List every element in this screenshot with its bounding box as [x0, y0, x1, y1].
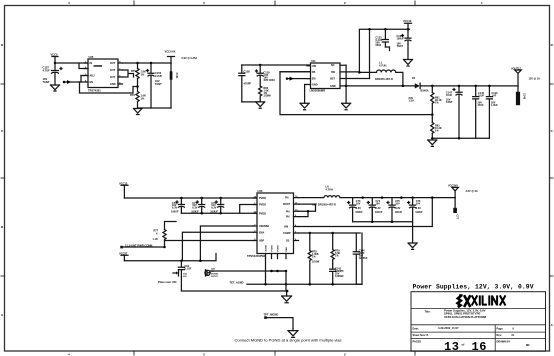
svg-text:100UF: 100UF: [375, 211, 383, 214]
junction: [402, 85, 405, 88]
capacitor C72: [215, 198, 223, 213]
svg-text:TANT: TANT: [43, 80, 50, 84]
zone tick bottom 2: [274, 351, 276, 355]
C137 value labels: [43, 66, 51, 85]
Q1 labels: [183, 274, 188, 279]
junction: [371, 220, 374, 223]
svg-text:VCC12: VCC12: [119, 181, 128, 185]
svg-text:Power Supplies, 12V, 3.0V, 0.9: Power Supplies, 12V, 3.0V, 0.9V: [413, 284, 534, 291]
svg-text:12V @ 1A: 12V @ 1A: [529, 78, 541, 81]
C64 labels: [185, 265, 192, 271]
zone tick right 1: [550, 83, 554, 85]
svg-text:LM22680MR: LM22680MR: [310, 89, 326, 93]
wire output cap ground rail: [353, 207, 413, 243]
junction: [286, 290, 289, 293]
ground: [282, 296, 292, 303]
svg-text:TANT: TANT: [155, 82, 162, 86]
svg-text:SW: SW: [331, 71, 336, 74]
junction: [285, 283, 288, 286]
capacitor C145: [473, 86, 479, 138]
power flag VCC5: [52, 57, 58, 64]
svg-text:PH: PH: [286, 210, 290, 213]
svg-text:OUT: OUT: [110, 76, 116, 79]
capacitor C128: [239, 65, 245, 102]
C134 labels: [397, 35, 405, 48]
wire pin8 to gnd column: [345, 65, 347, 103]
C145 labels: [478, 92, 485, 107]
junction: [407, 28, 410, 31]
svg-text:Connect MGND to PGND at a sing: Connect MGND to PGND at a single point w…: [235, 337, 342, 342]
resistor R76: [136, 87, 139, 109]
svg-text:1/16W: 1/16W: [312, 261, 320, 264]
wire VSENSE stagger: [182, 232, 253, 260]
svg-text:ADJ: ADJ: [90, 75, 96, 78]
junction: [368, 28, 371, 31]
svg-text:0.9V @ 0.25A: 0.9V @ 0.25A: [182, 57, 198, 60]
svg-text:1.1K: 1.1K: [153, 238, 158, 241]
junction: [200, 197, 203, 200]
wire SS row: [165, 240, 254, 242]
svg-text:6.3V: 6.3V: [172, 207, 177, 210]
ground: [300, 103, 309, 109]
capacitor C74: [367, 198, 375, 222]
svg-text:TPS74301: TPS74301: [88, 88, 101, 92]
svg-text:VCCAUX: VCCAUX: [165, 50, 176, 54]
svg-text:6.3V: 6.3V: [376, 207, 381, 210]
svg-text:PVDD: PVDD: [259, 204, 266, 207]
zone tick top 1: [133, 1, 135, 6]
junction: [180, 197, 183, 200]
svg-text:1.5A: 1.5A: [409, 99, 415, 103]
capacitor C144: [353, 233, 362, 284]
svg-text:VIN: VIN: [284, 226, 288, 229]
ferrite/cap C151 dark body: [170, 63, 173, 108]
R76 labels: [130, 93, 146, 101]
C128 labels: [244, 70, 252, 86]
junction: [431, 196, 434, 199]
svg-text:OUT: OUT: [110, 62, 116, 65]
junction: [458, 85, 461, 88]
junction: [345, 85, 348, 88]
svg-text:DR1050-4R7-R: DR1050-4R7-R: [375, 77, 393, 81]
junction: [54, 62, 57, 65]
svg-text:PH: PH: [286, 216, 290, 219]
svg-text:OUT: OUT: [110, 69, 116, 72]
capacitor C64: [178, 261, 184, 277]
svg-text:COMP: COMP: [283, 232, 291, 235]
svg-text:VIN: VIN: [312, 65, 316, 68]
svg-text:PGND: PGND: [277, 245, 279, 252]
svg-text:1206SF: 1206SF: [359, 257, 368, 260]
R75 labels: [131, 69, 146, 77]
wire GND pin drop: [304, 85, 306, 104]
C74 labels: [375, 200, 383, 214]
svg-text:GND: GND: [110, 83, 116, 86]
power flag VCC12 top: [405, 23, 412, 29]
wire feedback loop: [80, 82, 138, 93]
svg-text:1/16W: 1/16W: [264, 95, 272, 98]
wire output sense: [299, 198, 433, 227]
junction: [270, 270, 273, 273]
svg-text:FB: FB: [312, 71, 316, 74]
svg-text:NC: NC: [331, 64, 335, 67]
resistor R75: [136, 63, 139, 87]
ground: [134, 109, 143, 115]
C144 labels: [359, 250, 368, 261]
title cell text: [444, 308, 487, 319]
junction: [488, 85, 491, 88]
svg-text:GND: GND: [312, 84, 318, 87]
U11 pin names: [312, 64, 336, 88]
svg-text:PH: PH: [285, 197, 289, 200]
zone tick right 2: [550, 177, 554, 179]
junction: [219, 212, 222, 215]
R80 labels: [264, 87, 272, 98]
C150 labels: [155, 71, 162, 86]
title block frame: [411, 292, 546, 352]
junction: [264, 283, 267, 286]
C146 labels: [491, 92, 498, 107]
svg-text:6.3V: 6.3V: [356, 207, 361, 210]
capacitor C150: [147, 63, 155, 108]
diode D1: [415, 83, 420, 88]
junction: [381, 196, 384, 199]
junction: [309, 283, 312, 286]
date row: [413, 326, 515, 330]
wire bottom pin stubs join: [266, 259, 287, 285]
title block row lines: [411, 309, 546, 352]
junction: [136, 85, 139, 88]
svg-text:U25: U25: [89, 55, 94, 59]
C142 labels: [335, 268, 344, 279]
resistor R81: [431, 86, 434, 115]
junction: [259, 64, 262, 67]
wire FB loop: [280, 72, 432, 115]
svg-text:Rev:: Rev:: [497, 334, 503, 337]
zone tick left 3: [1, 275, 5, 277]
input arrow 5V: [63, 80, 80, 84]
resistor R78: [308, 233, 311, 284]
C73 labels: [355, 200, 363, 214]
svg-text:4.7UH: 4.7UH: [379, 64, 386, 68]
L6 labels: [326, 185, 333, 192]
svg-text:TANT: TANT: [397, 45, 404, 48]
zone tick top 2: [274, 1, 276, 6]
zone tick left 2: [1, 177, 5, 179]
C129 labels: [264, 72, 276, 83]
svg-text:R75: R75: [131, 69, 136, 73]
svg-text:100UF: 100UF: [395, 211, 403, 214]
svg-text:100UF: 100UF: [415, 211, 423, 214]
R77 labels: [153, 230, 159, 242]
wire PAD drop: [285, 271, 287, 284]
capacitor C133: [382, 29, 388, 47]
svg-text:MF: MF: [526, 343, 530, 347]
wire C133 stub: [385, 47, 389, 51]
Xilinx logo emblem: [458, 295, 471, 307]
C72 labels: [210, 202, 218, 214]
svg-text:16: 16: [472, 340, 487, 354]
node TPT_MGND: [264, 316, 293, 330]
capacitor C147: [453, 86, 462, 138]
wire input rail: [242, 64, 311, 66]
C76 labels: [415, 200, 423, 214]
cap C77 dark body: [453, 198, 457, 213]
ground: [256, 102, 265, 108]
resistor R82: [431, 115, 434, 139]
inductor L6: [299, 196, 456, 198]
capacitor C70: [176, 198, 184, 213]
wire ENA row: [200, 226, 253, 261]
svg-text:IN: IN: [90, 62, 93, 65]
svg-text:VOUT12: VOUT12: [511, 67, 521, 70]
svg-text:6.3V: 6.3V: [192, 207, 197, 210]
junction: [431, 113, 434, 116]
svg-text:100UF: 100UF: [397, 38, 405, 41]
resistor R77: [163, 222, 176, 248]
power flag VCC5 lower: [121, 255, 128, 260]
svg-text:of: of: [462, 343, 465, 347]
svg-text:1.0UF: 1.0UF: [491, 104, 498, 107]
junction: [331, 283, 334, 286]
svg-text:4-30-2009_11:07: 4-30-2009_11:07: [438, 326, 459, 330]
junction: [276, 270, 279, 273]
wire pin2 tie: [79, 63, 88, 69]
svg-text:AGND: AGND: [264, 245, 267, 252]
net flag VCCAUX: [168, 57, 175, 64]
svg-text:10V: 10V: [395, 202, 400, 205]
Q30 labels: [211, 269, 219, 279]
C75 labels: [395, 200, 403, 214]
svg-text:PGND: PGND: [271, 245, 273, 252]
svg-text:VBP: VBP: [259, 240, 264, 243]
svg-text:0603: 0603: [376, 44, 382, 47]
svg-text:100UF: 100UF: [171, 210, 179, 213]
svg-text:EN: EN: [312, 78, 316, 81]
C147 labels: [446, 92, 453, 105]
wire cap bottoms: [242, 101, 260, 103]
junction: [180, 259, 183, 262]
C133 labels: [376, 37, 383, 48]
net flag VCC3V0: [452, 187, 458, 197]
wire 12V output line: [345, 85, 518, 87]
svg-text:Place near U30: Place near U30: [158, 280, 177, 284]
capacitor C73: [348, 198, 356, 222]
wire pins 7,6 tie: [123, 70, 134, 77]
svg-text:Sheet Size: B: Sheet Size: B: [413, 334, 429, 337]
U30 bottom pin names: [264, 245, 288, 252]
junction: [458, 137, 461, 140]
R79 labels: [335, 250, 340, 258]
svg-text:10V: 10V: [376, 202, 381, 205]
R78 labels: [312, 251, 320, 264]
junction: [200, 212, 203, 215]
C70 labels: [171, 202, 179, 214]
svg-text:Date:: Date:: [413, 327, 419, 330]
R82 labels: [435, 125, 442, 133]
svg-text:Title:: Title:: [425, 311, 431, 314]
L1 labels: [379, 61, 386, 68]
svg-text:TPT_MGND: TPT_MGND: [264, 313, 279, 317]
junction: [285, 270, 288, 273]
svg-text:Page:: Page:: [497, 327, 504, 330]
wire VCC5 rail: [124, 254, 216, 261]
transistor Q1: [173, 270, 179, 276]
svg-text:PAGES: PAGES: [413, 340, 422, 343]
svg-text:4.7UH: 4.7UH: [326, 188, 333, 192]
junction: [219, 197, 222, 200]
capacitor C75: [387, 198, 395, 222]
capacitor C134: [402, 29, 412, 41]
junction: [474, 85, 477, 88]
svg-text:470PF: 470PF: [244, 82, 252, 86]
junction: [391, 220, 394, 223]
svg-text:47UF: 47UF: [478, 104, 485, 107]
wire COMP network top: [299, 232, 361, 234]
junction: [307, 210, 310, 213]
wire EN tie: [81, 76, 88, 83]
svg-text:1206SF: 1206SF: [335, 275, 344, 278]
svg-text:R76: R76: [130, 93, 135, 97]
U25 pin names: [90, 62, 116, 86]
zone tick bottom 1: [133, 351, 135, 355]
svg-text:C148: C148: [523, 93, 526, 100]
wire cap bottom rail to PGND pins: [181, 205, 257, 214]
net flag VOUT12: [515, 70, 521, 86]
svg-text:C128: C128: [244, 70, 251, 74]
U25 pin numbers: [85, 61, 121, 84]
svg-text:TANT: TANT: [446, 101, 453, 104]
wire AGND rail: [247, 283, 362, 285]
wire BST riser: [369, 29, 371, 78]
svg-text:PAD: PAD: [285, 247, 288, 252]
resistor R80: [259, 86, 262, 102]
junction: [199, 259, 202, 262]
zone tick left 1: [1, 83, 5, 85]
junction: [150, 62, 153, 65]
svg-text:DRAWN BY: DRAWN BY: [497, 341, 511, 344]
wire input rail: [124, 197, 257, 199]
svg-text:10V: 10V: [356, 202, 361, 205]
svg-text:2.2UF: 2.2UF: [155, 74, 162, 78]
svg-text:C77: C77: [456, 215, 459, 220]
node INT PWR CONN: [120, 246, 165, 249]
svg-text:SS: SS: [286, 240, 290, 243]
svg-text:10V: 10V: [416, 202, 421, 205]
svg-text:X7R 0603: X7R 0603: [264, 79, 276, 82]
wire ground rail: [138, 107, 172, 109]
transistor Q30: [205, 270, 210, 276]
capacitor C142: [330, 264, 336, 284]
junction: [400, 196, 403, 199]
svg-text:VSENSE: VSENSE: [259, 225, 269, 228]
sheet row: [413, 334, 515, 337]
svg-text:TET_AGND: TET_AGND: [230, 280, 244, 284]
junction: [431, 137, 434, 140]
svg-text:C151: C151: [175, 73, 178, 80]
svg-text:13: 13: [444, 340, 459, 354]
svg-text:VCC3V0: VCC3V0: [448, 184, 458, 187]
fuse/cap C148 dark body: [516, 86, 520, 105]
capacitor C129: [256, 65, 264, 86]
power flag VCC12: [121, 185, 128, 198]
R81 labels: [435, 97, 442, 105]
svg-text:B340A: B340A: [421, 89, 429, 93]
junction: [384, 28, 387, 31]
inductor L1: [359, 70, 403, 86]
wire C64 to MGND rail: [181, 277, 287, 291]
svg-text:6.3V: 6.3V: [416, 207, 421, 210]
wire output rail: [123, 62, 172, 64]
wire single point ground drop: [285, 284, 288, 296]
svg-text:VCC5: VCC5: [51, 53, 58, 57]
ground: [404, 40, 413, 66]
capacitor C76: [408, 198, 416, 222]
input arrow 5V: [286, 77, 308, 81]
junction: [431, 85, 434, 88]
svg-text:6.3V: 6.3V: [211, 207, 216, 210]
pages row: [413, 340, 531, 354]
svg-text:11,14 INT PWR CONN: 11,14 INT PWR CONN: [125, 243, 152, 247]
svg-text:U30: U30: [258, 189, 263, 193]
ground: [428, 140, 437, 146]
svg-text:BST: BST: [330, 78, 335, 81]
svg-text:GND: GND: [330, 85, 336, 88]
zone tick right 3: [550, 275, 554, 277]
svg-text:EN: EN: [90, 81, 94, 84]
ground: [408, 243, 417, 249]
junction: [331, 232, 334, 235]
zone tick bottom 3: [414, 351, 416, 355]
op-amp U11: [280, 63, 370, 89]
svg-text:SOT23: SOT23: [211, 276, 218, 278]
svg-text:PVDD: PVDD: [259, 197, 266, 200]
junction: [361, 196, 364, 199]
ground: [51, 85, 60, 91]
svg-text:10UF: 10UF: [478, 95, 485, 98]
op-amp U30: [254, 193, 299, 259]
svg-text:PVDD: PVDD: [259, 212, 266, 215]
junction: [136, 62, 139, 65]
svg-text:TPS54350PWP: TPS54350PWP: [247, 254, 266, 258]
svg-text:1UF: 1UF: [492, 95, 497, 98]
svg-text:BOOT: BOOT: [283, 203, 291, 206]
junction: [309, 232, 312, 235]
zone tick top 3: [414, 1, 416, 6]
svg-text:VCC12: VCC12: [403, 19, 412, 23]
U30 pin numbers: [254, 195, 299, 241]
ground: [342, 103, 351, 109]
capacitor C137: [52, 63, 63, 85]
wire VCC5 to U25 pin1: [55, 62, 88, 64]
resistor R79: [331, 233, 334, 264]
D1 labels: [409, 76, 429, 102]
svg-text:VCC5T: VCC5T: [119, 252, 128, 256]
boot cap stagger wires: [299, 204, 316, 217]
svg-text:ENA: ENA: [259, 231, 264, 234]
svg-text:3.0V @ 3A: 3.0V @ 3A: [466, 190, 478, 193]
svg-text:10UF: 10UF: [446, 94, 453, 97]
junction: [358, 71, 361, 74]
svg-text:XC6S EVALUATION PLATFORM: XC6S EVALUATION PLATFORM: [444, 315, 487, 319]
wire Q30 to bottom pins: [210, 270, 286, 272]
op-amp/regulator U25: [80, 59, 123, 88]
ground: [288, 331, 298, 338]
svg-text:D1: D1: [412, 76, 416, 80]
wire cap ground rail: [432, 137, 489, 139]
Xilinx logo text: [472, 295, 506, 305]
svg-text:100UF: 100UF: [355, 211, 363, 214]
